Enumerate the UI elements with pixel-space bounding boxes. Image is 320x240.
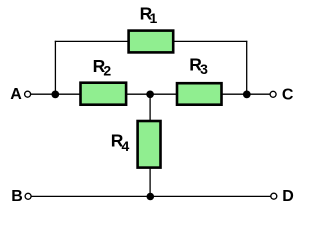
wire: R3 to terminal C xyxy=(222,93,270,95)
svg-text:D: D xyxy=(282,188,294,205)
svg-text:2: 2 xyxy=(103,62,111,78)
svg-text:3: 3 xyxy=(200,61,208,77)
junction: bottom node at R4 xyxy=(147,193,155,201)
wire: top rail left segment to R1 xyxy=(55,40,129,42)
resistor R3 xyxy=(177,83,222,105)
resistor R1 xyxy=(129,31,174,53)
junction: node A xyxy=(51,91,59,99)
terminal A (open circle) xyxy=(25,91,31,97)
wire: R4 down to bottom junction xyxy=(149,168,151,196)
wire: bottom rail from terminal B to terminal D xyxy=(31,195,270,197)
terminal C (open circle) xyxy=(270,91,276,97)
wire: R2 to R3 middle segment xyxy=(127,93,178,95)
resistor R4 xyxy=(138,121,161,168)
svg-text:A: A xyxy=(10,86,22,103)
wire: top rail right segment from R1 xyxy=(174,40,248,42)
junction: node C xyxy=(243,91,251,99)
resistor R2 xyxy=(81,83,127,105)
junction: middle node between R2 and R3 xyxy=(146,90,154,98)
terminal B (open circle) xyxy=(25,193,31,199)
svg-text:1: 1 xyxy=(150,10,158,26)
wire: right riser from top rail down to node C junction xyxy=(246,41,248,94)
wire: middle junction down to R4 xyxy=(149,94,151,121)
terminal D (open circle) xyxy=(271,193,277,199)
svg-text:4: 4 xyxy=(122,138,130,154)
wire: left riser from node A junction to top rail xyxy=(54,41,56,94)
svg-text:C: C xyxy=(282,86,294,103)
wire: terminal A to R2 xyxy=(31,93,81,95)
svg-text:B: B xyxy=(11,188,23,205)
